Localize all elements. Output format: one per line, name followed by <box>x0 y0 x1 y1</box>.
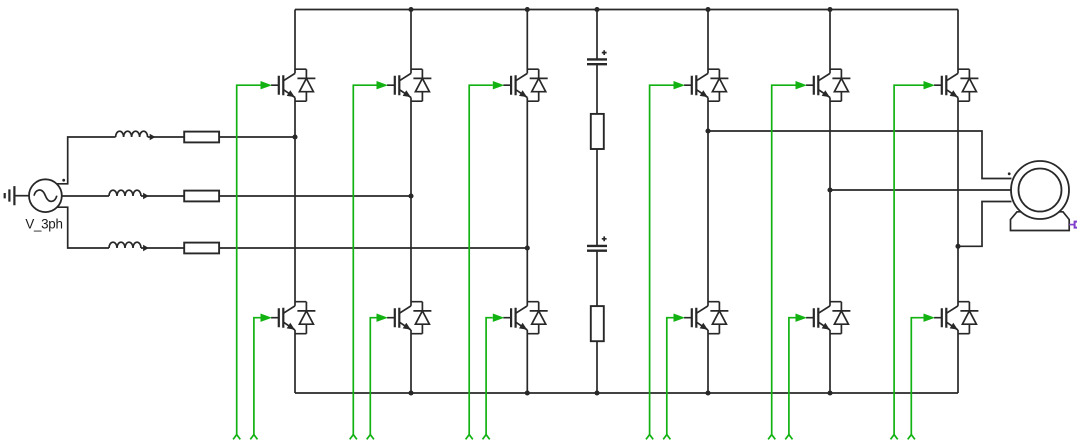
IGBT with antiparallel diode T3 (leg 3 top) <box>503 69 547 101</box>
wire: leg 2 midpoint vertical (phase node) <box>410 98 412 306</box>
wire: source phase a to inductor La <box>57 137 116 184</box>
gate signal wire for T6 (leg 6 top) <box>891 81 936 439</box>
IGBT with antiparallel diode T9 (leg 3 bottom) <box>503 302 547 334</box>
junction: DC- bus / leg 5 <box>827 390 832 395</box>
electrolytic capacitor C1 <box>587 50 607 64</box>
electrolytic capacitor C2 <box>587 236 607 250</box>
junction: DC- bus / leg 4 <box>705 390 710 395</box>
junction: DC- bus / DC link branch <box>594 390 599 395</box>
IGBT with antiparallel diode T8 (leg 2 bottom) <box>387 302 431 334</box>
wire: Ra to node A (leg 1 midpoint) <box>219 136 295 138</box>
wire: leg 6 emitter drop to DC- bus <box>957 330 959 393</box>
junction: node U (leg 4 / machine u) <box>705 128 710 133</box>
wire: leg 4 midpoint vertical (phase node) <box>707 98 709 306</box>
wire: Rc to node C (leg 3 midpoint) <box>219 247 527 249</box>
wire: DC- bus (bottom rail) <box>295 392 958 394</box>
wire: C1 to resistor R1 <box>596 64 598 114</box>
wire: leg 6 midpoint to machine terminal w <box>958 202 1012 247</box>
wire: leg 5 collector drop from DC+ bus <box>829 10 831 74</box>
IGBT with antiparallel diode T5 (leg 5 top) <box>806 69 850 101</box>
svg-text:V_3ph: V_3ph <box>25 217 62 232</box>
gate signal wire for T5 (leg 5 top) <box>768 81 807 439</box>
junction: DC- bus / leg 2 <box>408 390 413 395</box>
junction: DC+ bus / leg 3 <box>525 7 530 12</box>
resistor Ra (phase a) <box>184 132 219 143</box>
wire: leg 3 midpoint vertical (phase node) <box>526 98 528 306</box>
IGBT with antiparallel diode T4 (leg 4 top) <box>684 69 728 101</box>
junction: node A (phase a / leg 1) <box>292 134 297 139</box>
gate signal wire for T4 (leg 4 top) <box>646 81 685 439</box>
IGBT with antiparallel diode T2 (leg 2 top) <box>387 69 431 101</box>
wire: source phase b to inductor Lb <box>62 195 109 197</box>
wire: leg 5 midpoint vertical (phase node) <box>829 98 831 306</box>
junction: DC+ bus / DC link branch <box>594 7 599 12</box>
junction: DC+ bus / leg 2 <box>408 7 413 12</box>
inductor Lc (with current arrow) <box>109 242 149 251</box>
wire: leg 5 emitter drop to DC- bus <box>829 330 831 393</box>
wire: leg 2 collector drop from DC+ bus <box>410 10 412 74</box>
wire: leg 4 emitter drop to DC- bus <box>707 330 709 393</box>
inductor Lb (with current arrow) <box>109 190 149 199</box>
induction machine M1 (stator/rotor circles) <box>1011 161 1069 219</box>
wire: leg 4 collector drop from DC+ bus <box>707 10 709 74</box>
inductor La (with current arrow) <box>116 131 156 140</box>
junction: DC+ bus / leg 5 <box>827 7 832 12</box>
resistor Rb (phase b) <box>184 191 219 202</box>
wire: Lc to Rc <box>141 247 184 249</box>
wire: Rb to node B (leg 2 midpoint) <box>219 195 411 197</box>
phase-a polarity marker dot (source) <box>62 179 65 182</box>
resistor Rc (phase c) <box>184 243 219 254</box>
wire: leg 3 emitter drop to DC- bus <box>526 330 528 393</box>
gate signal wire for T9 (leg 3 bottom) <box>483 314 505 440</box>
IGBT with antiparallel diode T12 (leg 6 bottom) <box>934 302 978 334</box>
junction: DC- bus / leg 3 <box>525 390 530 395</box>
wire: Lb to Rb <box>141 195 184 197</box>
junction: node C (phase c / leg 3) <box>525 245 530 250</box>
IGBT with antiparallel diode T10 (leg 4 bottom) <box>684 302 728 334</box>
three-phase AC voltage source V_3ph <box>29 179 62 212</box>
junction: node B (phase b / leg 2) <box>408 193 413 198</box>
induction machine M1 (pedestal) <box>1011 212 1070 231</box>
wire: source phase c to inductor Lc <box>57 207 109 248</box>
wire: C2 to resistor R2 <box>596 251 598 306</box>
wire: R1 to capacitor C2 (DC midpoint) <box>596 149 598 246</box>
resistor R2 (DC link bleeder, lower) <box>591 306 604 341</box>
wire: leg 4 midpoint to machine terminal u <box>708 131 1012 179</box>
resistor R1 (DC link bleeder, upper) <box>591 114 604 149</box>
ground (source reference) <box>5 186 30 205</box>
junction: node W (leg 6 / machine w) <box>955 244 960 249</box>
IGBT with antiparallel diode T1 (leg 1 top) <box>271 69 315 101</box>
wire: La to Ra <box>148 136 185 138</box>
rotational shaft port (machine, purple) <box>1069 222 1077 228</box>
gate signal wire for T10 (leg 4 bottom) <box>663 314 685 440</box>
wire: leg 6 collector drop from DC+ bus <box>957 10 959 74</box>
junction: DC+ bus / leg 4 <box>705 7 710 12</box>
junction: node V (leg 5 / machine v) <box>827 187 832 192</box>
gate signal wire for T2 (leg 2 top) <box>350 81 388 439</box>
wire: leg 6 midpoint vertical (phase node) <box>957 98 959 306</box>
IGBT with antiparallel diode T11 (leg 5 bottom) <box>806 302 850 334</box>
wire: leg 3 collector drop from DC+ bus <box>526 10 528 74</box>
wire: R2 to DC- bus <box>596 341 598 393</box>
wire: DC+ bus (top rail) <box>295 9 958 11</box>
wire: leg 2 emitter drop to DC- bus <box>410 330 412 393</box>
gate signal wire for T12 (leg 6 bottom) <box>908 314 935 440</box>
gate signal wire for T7 (leg 1 bottom) <box>250 314 272 440</box>
IGBT with antiparallel diode T6 (leg 6 top) <box>934 69 978 101</box>
gate signal wire for T11 (leg 5 bottom) <box>785 314 807 440</box>
phase-a polarity marker dot (machine) <box>1008 172 1011 175</box>
gate signal wire for T1 (leg 1 top) <box>233 81 272 439</box>
gate signal wire for T8 (leg 2 bottom) <box>367 314 388 440</box>
wire: leg 1 collector drop from DC+ bus <box>294 10 296 74</box>
IGBT with antiparallel diode T7 (leg 1 bottom) <box>271 302 315 334</box>
wire: leg 5 midpoint to machine terminal v <box>830 189 1011 191</box>
wire: leg 1 emitter drop to DC- bus <box>294 330 296 393</box>
wire: leg 1 midpoint vertical (phase node) <box>294 98 296 306</box>
gate signal wire for T3 (leg 3 top) <box>466 81 505 439</box>
wire: DC+ bus to capacitor C1 <box>596 10 598 60</box>
